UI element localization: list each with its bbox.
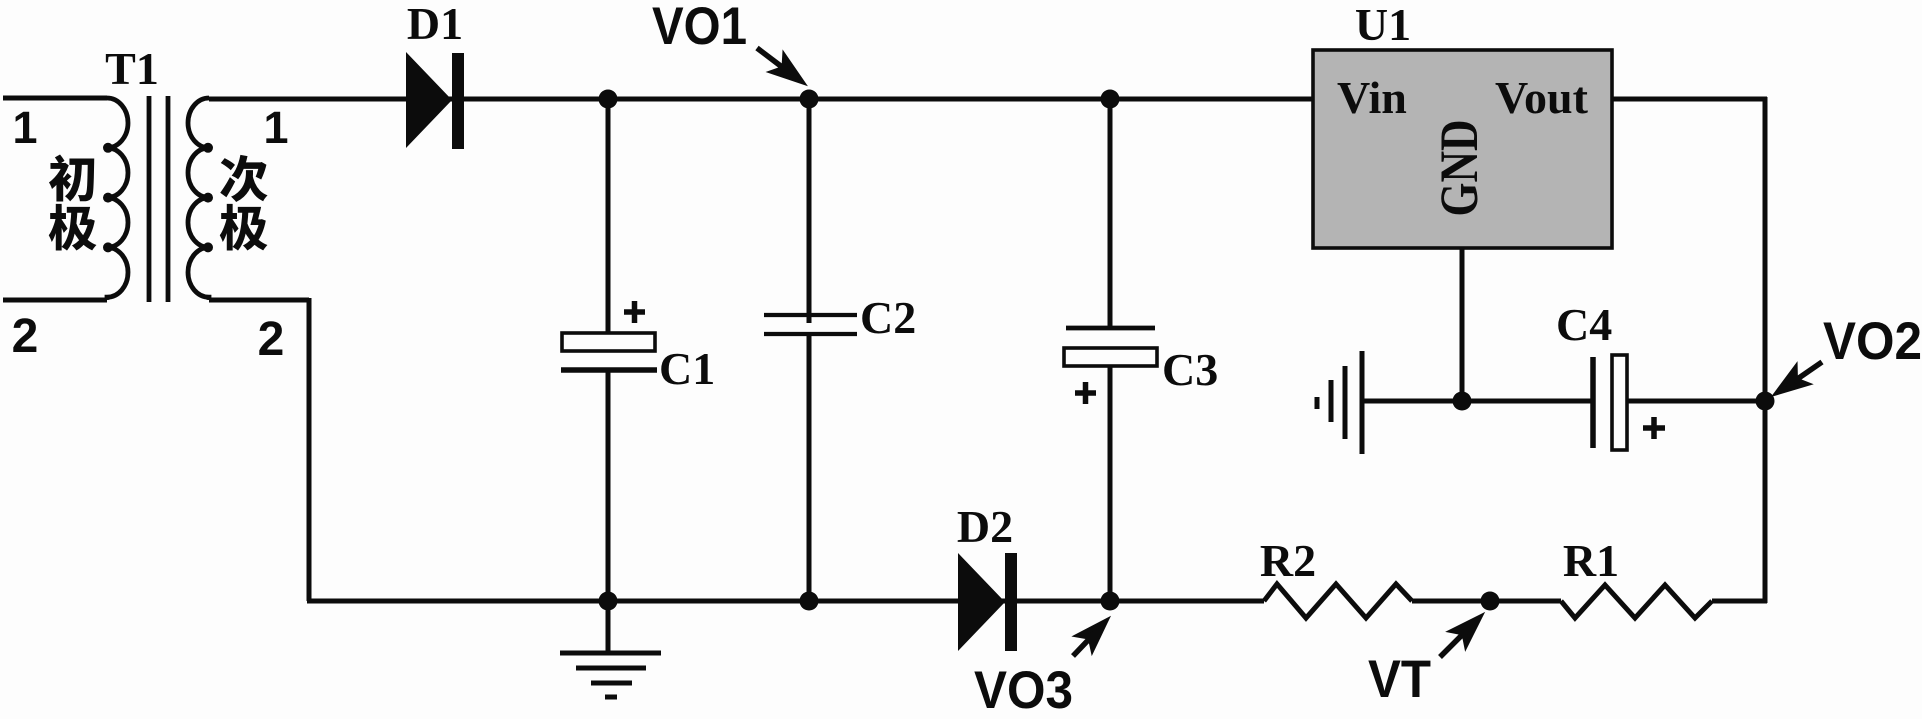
svg-text:T1: T1 xyxy=(105,43,159,94)
wire: secondary drop to bottom rail xyxy=(307,298,312,601)
wire: right vertical rail xyxy=(1763,97,1768,603)
wire: C1 ground stub xyxy=(606,601,611,653)
svg-text:VO3: VO3 xyxy=(974,661,1073,719)
wire: C3 bottom stub xyxy=(1108,365,1113,601)
wire: primary top lead xyxy=(3,96,107,101)
capacitor C2 xyxy=(764,315,857,334)
wire: C2 top stub xyxy=(807,99,812,323)
svg-text:D1: D1 xyxy=(407,0,463,49)
T1 primary label (ji) xyxy=(49,204,97,251)
resistor R1 xyxy=(1561,585,1712,618)
T1 core xyxy=(147,96,152,302)
wire: primary bottom lead xyxy=(3,298,107,303)
transformer T1 xyxy=(107,96,209,302)
node VO2 junction xyxy=(1756,392,1775,411)
wire: bottom rail left section xyxy=(307,599,1264,604)
svg-text:VO1: VO1 xyxy=(652,0,747,56)
node C3 top xyxy=(1101,90,1120,109)
svg-text:GND: GND xyxy=(1429,120,1489,217)
svg-text:R1: R1 xyxy=(1563,535,1619,586)
wire: C1 bottom stub xyxy=(606,368,611,601)
VO2 arrow xyxy=(1773,362,1822,399)
diode D2 xyxy=(958,553,1017,651)
svg-text:1: 1 xyxy=(263,102,288,153)
wire: C2 bottom stub xyxy=(807,334,812,601)
wire: C3 top stub xyxy=(1108,99,1113,328)
capacitor C3 (polarized) xyxy=(1064,328,1157,404)
T1 primary winding (kept) xyxy=(107,98,128,300)
node C1 top xyxy=(599,90,618,109)
VO1 arrow xyxy=(757,48,806,88)
T1 primary label (chu) xyxy=(49,154,94,201)
wire: bottom rail between R2 and R1 xyxy=(1412,599,1561,604)
ground symbol below C1 xyxy=(560,653,661,697)
svg-text:1: 1 xyxy=(12,102,37,153)
wire: bottom rail right of R1 xyxy=(1712,599,1767,604)
wire: C4 to VO2 node xyxy=(1627,399,1765,404)
T1 secondary winding xyxy=(188,98,209,300)
svg-text:2: 2 xyxy=(12,310,39,363)
wire: ground to C4 row xyxy=(1360,399,1593,404)
wire: C1 top stub xyxy=(606,99,611,335)
svg-text:Vin: Vin xyxy=(1337,72,1407,123)
VO3 arrow xyxy=(1073,616,1111,656)
wire: top rail from secondary to U1 Vin xyxy=(209,97,1313,102)
T1 secondary label (ji) xyxy=(220,204,268,251)
T1 secondary label (ci) xyxy=(220,155,267,202)
wire: U1 GND drop xyxy=(1460,246,1465,401)
capacitor C4 (polarized) xyxy=(1593,355,1665,450)
svg-text:VO2: VO2 xyxy=(1823,312,1922,371)
svg-text:C3: C3 xyxy=(1162,344,1218,395)
node GND junction xyxy=(1453,392,1472,411)
svg-text:C4: C4 xyxy=(1556,299,1612,350)
svg-text:C1: C1 xyxy=(659,343,715,394)
svg-text:2: 2 xyxy=(258,313,285,366)
svg-text:C2: C2 xyxy=(860,292,916,343)
svg-text:D2: D2 xyxy=(957,501,1013,552)
wire: Vout lead xyxy=(1612,97,1767,102)
node VT junction xyxy=(1481,592,1500,611)
node VO1 junction xyxy=(800,90,819,109)
svg-text:U1: U1 xyxy=(1355,0,1411,50)
resistor R2 xyxy=(1264,584,1412,618)
regulator U1 xyxy=(1313,50,1612,248)
T1 winding cusp dots secondary xyxy=(203,143,213,153)
capacitor C1 (polarized) xyxy=(561,301,657,370)
svg-text:VT: VT xyxy=(1368,650,1431,709)
node C1 bottom xyxy=(599,592,618,611)
wire: secondary bottom lead xyxy=(209,298,309,303)
VT arrow xyxy=(1440,612,1485,657)
svg-text:Vout: Vout xyxy=(1495,72,1589,123)
node C2 bottom xyxy=(800,592,819,611)
diode D1 xyxy=(406,52,464,149)
svg-text:R2: R2 xyxy=(1260,535,1316,586)
ground symbol (sideways) near U1 xyxy=(1317,351,1362,454)
node VO3 junction xyxy=(1101,592,1120,611)
T1 winding cusp dots primary xyxy=(103,143,113,153)
